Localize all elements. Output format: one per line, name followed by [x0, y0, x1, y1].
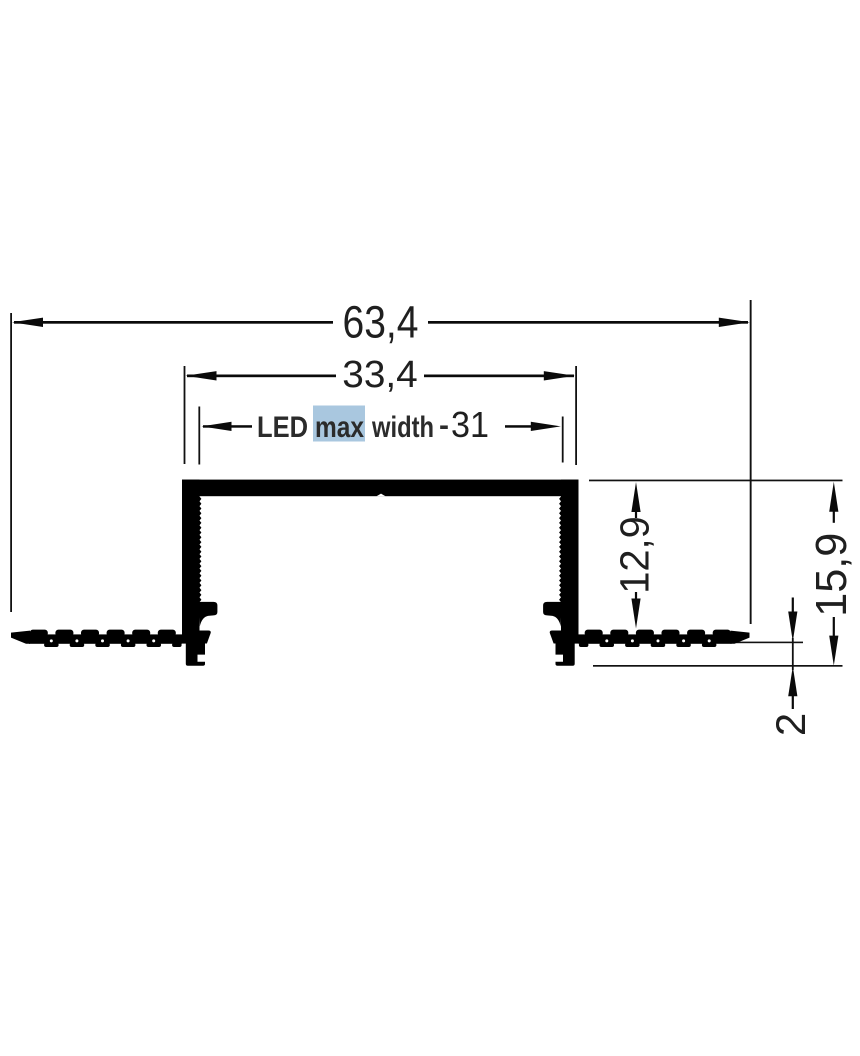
svg-text:-: - [439, 409, 449, 442]
LED width right arrow [531, 422, 561, 431]
LED width left extension line [198, 407, 200, 465]
right flange root stub [550, 631, 561, 644]
max highlight [313, 406, 365, 442]
svg-text:LED: LED [257, 411, 308, 444]
thin reference line top (profile top level, right side) [589, 480, 843, 482]
left flange bottom teeth [44, 643, 182, 647]
dim 12,9 bottom arrow [631, 599, 640, 629]
left wall [182, 480, 200, 644]
svg-text:63,4: 63,4 [343, 296, 419, 347]
left flange tip [11, 631, 30, 644]
right flange top teeth [585, 630, 731, 637]
svg-text:31: 31 [451, 404, 489, 445]
svg-text:12,9: 12,9 [612, 516, 658, 594]
profile top bar [182, 480, 579, 497]
right wall inner serration [559, 497, 561, 603]
LED width left arrow [202, 422, 232, 431]
dim 2 upper arrow [788, 612, 797, 642]
svg-text:2: 2 [767, 713, 814, 736]
left foot with notch [186, 643, 205, 666]
dim 63,4 left arrow [12, 318, 43, 327]
left wall inner serration [200, 497, 202, 603]
dim 63,4 right arrow [719, 318, 750, 327]
thin reference line flange bottom right [733, 642, 803, 644]
right flange white slivers [605, 639, 710, 642]
right flange base [579, 634, 732, 643]
dim 33,4 line [187, 375, 336, 378]
right wall [561, 480, 579, 644]
right half of profile (mirrored) [543, 480, 749, 666]
svg-text:33,4: 33,4 [342, 354, 418, 396]
dim 15,9 bottom arrow [829, 636, 838, 666]
svg-text:max: max [315, 411, 364, 444]
LED width right extension line [562, 417, 564, 463]
dim 63,4 line [14, 321, 333, 324]
dim 63,4 right extension line [750, 300, 752, 624]
svg-text:width: width [371, 411, 434, 444]
right wall hook tab [543, 602, 561, 627]
left flange root stub [200, 631, 211, 644]
dim 2 lower arrow [788, 666, 797, 696]
dim 15,9 top arrow [829, 482, 838, 512]
right flange tip [731, 631, 750, 644]
dim 63,4 left extension line [10, 313, 12, 612]
thin reference line foot bottom right [593, 665, 843, 667]
dim 33,4 right arrow [544, 371, 575, 380]
left wall hook tab [199, 602, 217, 627]
left flange base [29, 634, 182, 643]
left half of profile [11, 480, 217, 666]
dim 33,4 right extension line [575, 366, 577, 465]
dim 33,4 left extension line [184, 366, 186, 464]
left flange top teeth [30, 630, 176, 637]
left flange white slivers [50, 639, 155, 642]
right flange bottom teeth [579, 643, 717, 647]
dim 2 connector line [792, 638, 794, 670]
dim 12,9 top arrow [631, 482, 640, 512]
dim 33,4 left arrow [186, 371, 217, 380]
right foot with notch [556, 643, 575, 666]
svg-text:15,9: 15,9 [808, 533, 856, 617]
top bar center notch [377, 494, 386, 497]
